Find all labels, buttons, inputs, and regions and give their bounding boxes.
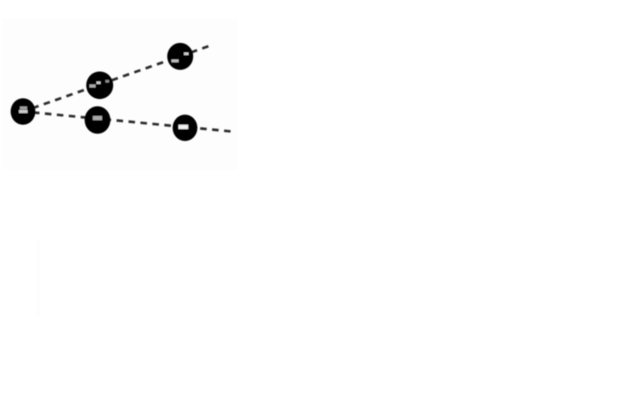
node N1 label: [20, 107, 27, 110]
faint vertical bar artifact: [36, 239, 40, 318]
node N1 (leftmost): [11, 98, 36, 124]
wire: lower dashed edge from node N1 through N4 to N5 and beyond: [23, 112, 232, 132]
panel background: [2, 19, 237, 170]
node N4 (lower middle): [85, 106, 111, 134]
node N2 (upper middle): [86, 72, 113, 100]
node N3 label: [172, 60, 179, 63]
node N5 label: [179, 125, 189, 129]
node N5 (lower right): [173, 115, 198, 141]
node N2 label: [90, 85, 96, 88]
wire: upper dashed edge from node N1 through N2 to N3 and beyond: [23, 45, 212, 112]
node N4 label: [93, 116, 102, 120]
node N3 (upper right): [167, 43, 193, 70]
